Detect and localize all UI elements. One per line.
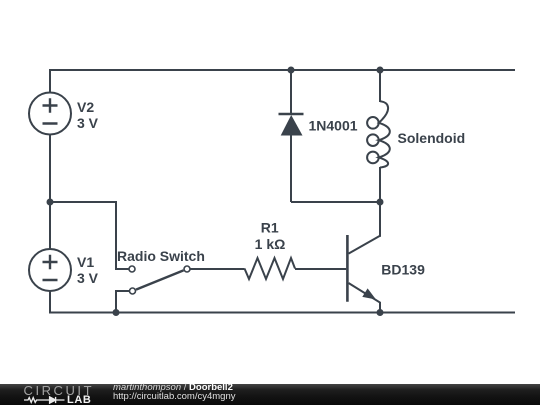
footer credit url [113, 392, 236, 402]
node junction bottom rail emitter [377, 309, 384, 316]
node junction top rail solenoid [377, 67, 384, 74]
wire top rail [49, 69, 515, 71]
wire bottom rail [49, 312, 515, 314]
logo LAB text [67, 394, 91, 406]
diode D1 triangle [281, 115, 303, 136]
svg-text:BD139: BD139 [381, 262, 425, 278]
transistor Q1 emitter arrowhead [362, 288, 376, 299]
wire diode cathode stem [290, 70, 292, 114]
wire resistor to base [295, 268, 346, 270]
wire diode to solenoid bottom [291, 201, 380, 203]
svg-text:R1: R1 [261, 219, 279, 235]
switch SW1 terminal bottom-left [130, 288, 136, 294]
switch SW1 terminal top-left [129, 266, 135, 272]
svg-text:Radio Switch: Radio Switch [117, 248, 205, 264]
node junction top rail diode [288, 67, 295, 74]
resistor R1 [245, 258, 296, 279]
wire diode anode stem [290, 135, 292, 202]
svg-text:V1: V1 [77, 254, 94, 270]
svg-text:1N4001: 1N4001 [309, 117, 358, 133]
diode D1 cathode bar [279, 113, 304, 115]
svg-text:1 kΩ: 1 kΩ [255, 236, 286, 252]
wire V1 bottom stem [49, 291, 51, 313]
switch SW1 lever [136, 270, 184, 289]
svg-text:V2: V2 [77, 99, 94, 115]
node junction V1-V2 [47, 199, 54, 206]
voltage source V2 [29, 93, 71, 135]
transistor Q1 collector diagonal [349, 236, 381, 254]
wire V1 top stem [49, 202, 51, 249]
node junction solenoid bottom [377, 199, 384, 206]
wire solenoid top stem [379, 70, 381, 102]
wire node to switch top throw [50, 202, 129, 269]
transistor Q1 emitter diagonal [349, 283, 381, 313]
wire V2 top stem [49, 70, 51, 93]
footer bar [0, 384, 540, 406]
logo wire squiggle with resistor and diode [23, 395, 69, 405]
wire switch bottom throw to bottom rail [116, 291, 130, 313]
voltage source V1 [29, 249, 71, 291]
wire solenoid bottom stem [379, 167, 381, 202]
svg-text:Solendoid: Solendoid [398, 130, 466, 146]
svg-text:3 V: 3 V [77, 270, 99, 286]
footer credit author/title [113, 383, 233, 393]
wire switch to resistor [190, 268, 245, 270]
transistor Q1 base bar [346, 235, 349, 302]
node junction bottom rail switch [113, 309, 120, 316]
logo CIRCUIT text [24, 383, 95, 398]
inductor L1 solenoid coil [379, 101, 390, 167]
switch SW1 terminal right [184, 266, 190, 272]
svg-text:3 V: 3 V [77, 115, 99, 131]
wire collector up [379, 202, 381, 237]
wire V2 bottom to node [49, 135, 51, 203]
